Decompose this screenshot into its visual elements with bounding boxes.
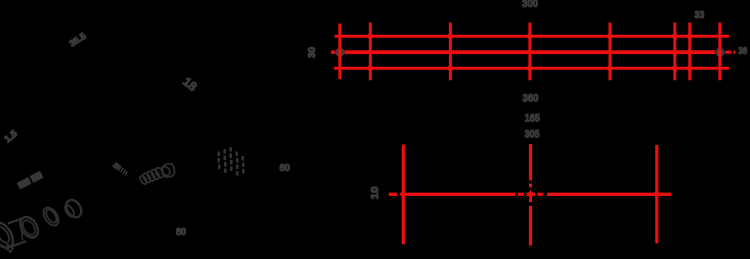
svg-text:300: 300 bbox=[522, 0, 538, 10]
svg-text:36: 36 bbox=[738, 46, 747, 57]
svg-text:80: 80 bbox=[176, 227, 186, 238]
svg-text:10: 10 bbox=[370, 186, 381, 200]
svg-text:30: 30 bbox=[307, 47, 318, 58]
svg-text:33: 33 bbox=[694, 10, 704, 21]
svg-text:165: 165 bbox=[525, 113, 540, 125]
svg-text:360: 360 bbox=[523, 93, 539, 105]
svg-text:305: 305 bbox=[525, 128, 540, 140]
svg-text:60: 60 bbox=[279, 163, 290, 174]
